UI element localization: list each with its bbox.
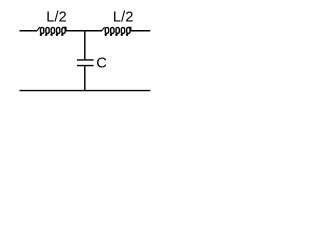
wire: bottom return rail <box>20 90 151 92</box>
svg-text:L/2: L/2 <box>46 10 67 26</box>
inductor L1 (L/2), left series coil <box>37 27 67 36</box>
wire: top-right terminal lead <box>131 30 151 32</box>
capacitor C1: bottom plate <box>77 65 94 67</box>
svg-text:C: C <box>96 56 107 72</box>
wire: top-left terminal lead <box>20 30 38 32</box>
inductor L2 (L/2), right series coil <box>101 27 131 36</box>
wire: capacitor bottom stem to bottom rail <box>84 66 86 90</box>
svg-text:L/2: L/2 <box>113 10 134 26</box>
capacitor C1: top plate <box>77 59 94 61</box>
wire: capacitor top stem from shunt node <box>84 31 86 60</box>
wire: top rail between L1 and shunt node <box>66 30 102 32</box>
